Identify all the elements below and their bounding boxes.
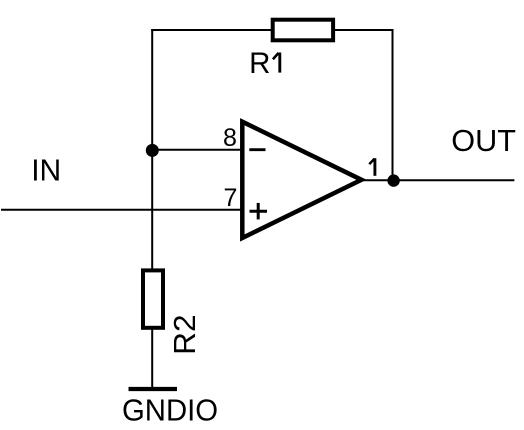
pin number 1 (drawn, no serif) xyxy=(373,158,376,176)
svg-text:IN: IN xyxy=(31,152,61,187)
node junction dot output xyxy=(387,174,399,186)
svg-text:8: 8 xyxy=(223,124,237,152)
wire IN horizontal (pin 7) xyxy=(1,209,243,211)
svg-text:OUT: OUT xyxy=(451,123,516,158)
label R1 (digit 1 drawn, no serif) xyxy=(278,53,281,73)
svg-text:GNDIO: GNDIO xyxy=(122,392,218,427)
wire right vertical feedback xyxy=(392,29,394,181)
svg-text:7: 7 xyxy=(224,184,238,212)
op-amp U1 triangle xyxy=(242,122,361,238)
ground GNDIO symbol bar xyxy=(129,387,178,391)
op-amp plus sign xyxy=(250,210,268,213)
wire pin 8 (inverting input) xyxy=(152,149,243,151)
wire OUT horizontal xyxy=(361,179,514,181)
svg-text:R: R xyxy=(249,47,270,80)
node junction dot left xyxy=(146,144,159,157)
op-amp minus sign xyxy=(249,148,265,151)
svg-text:R2: R2 xyxy=(167,314,202,355)
resistor R2 xyxy=(143,270,163,327)
wire feedback top horizontal xyxy=(151,29,392,31)
wire left vertical (feedback corner down to R2) xyxy=(151,29,153,270)
resistor R1 xyxy=(273,20,333,41)
wire R2 to ground xyxy=(151,328,153,389)
